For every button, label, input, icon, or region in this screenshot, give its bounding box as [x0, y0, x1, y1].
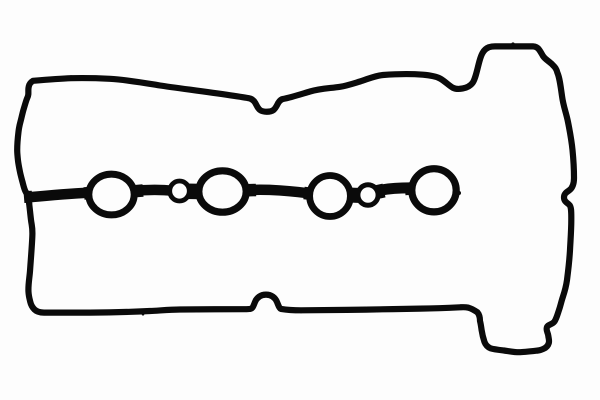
fat neck small2-circle4 [375, 191, 384, 193]
large circle 2 [199, 171, 246, 212]
gasket outer outline [17, 46, 574, 352]
tick on top edge x71 [70, 75, 73, 78]
fillet at circle3 left [304, 193, 313, 194]
bar: small1 to circle2 [184, 186, 204, 198]
large circle 1 [89, 174, 134, 215]
tick left edge y225 [31, 224, 34, 227]
tick on top edge x390 [389, 72, 392, 75]
bar: circle2 to circle3 [242, 190, 316, 195]
fillet at circle2 right [247, 184, 256, 197]
nub on right edge bump area [511, 42, 514, 45]
large circle 3 [310, 176, 351, 217]
fillet at circle1 left [84, 186, 93, 199]
small circle 1 [170, 181, 190, 201]
bar: small2 to circle4 [372, 188, 418, 192]
fat neck small1-circle2 [186, 184, 200, 200]
small circle 2 [358, 185, 378, 206]
fat neck circle3-small2 [348, 188, 361, 204]
bar: circle3 to small2 [344, 190, 364, 200]
bar: left edge to circle1 [24, 193, 95, 198]
tick bottom edge x143 [142, 313, 145, 316]
junction fillet at left edge [26, 191, 32, 205]
bar: circle1 to small1 [128, 190, 174, 192]
fillet at circle1 right [135, 184, 143, 197]
small nubs/ticks [31, 42, 520, 354]
nub circle4 right [457, 191, 461, 195]
middle chain: bars [24, 188, 418, 198]
large circle 4 [412, 169, 456, 212]
tick lower step run [518, 351, 521, 354]
fillet at circle4 left [405, 182, 414, 195]
circle rings (white-filled, drawn over bars) [89, 169, 456, 217]
tick bottom edge x301 [300, 310, 303, 313]
